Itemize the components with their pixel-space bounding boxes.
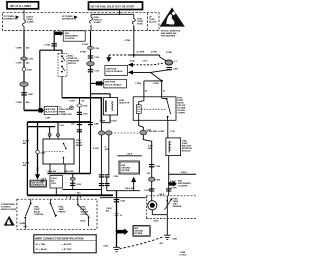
svg-text:SENDER: SENDER	[173, 206, 182, 208]
svg-text:PROCEDURES: PROCEDURES	[161, 36, 176, 38]
svg-text:1 ORN: 1 ORN	[44, 44, 51, 46]
svg-text:2 PNK: 2 PNK	[166, 52, 172, 54]
svg-text:BLOCK: BLOCK	[149, 22, 157, 24]
svg-text:WIRE CONNECTOR IDENTIFICATION: WIRE CONNECTOR IDENTIFICATION	[35, 237, 84, 241]
svg-text:GRN: GRN	[148, 148, 153, 150]
svg-text:71864: 71864	[180, 251, 186, 254]
svg-text:CLUSTER: CLUSTER	[178, 185, 188, 187]
svg-text:MODULE (PCM): MODULE (PCM)	[1, 209, 16, 211]
svg-text:GRY: GRY	[105, 149, 110, 151]
svg-text:2 PNK: 2 PNK	[100, 121, 106, 123]
svg-text:INJECTOR: INJECTOR	[119, 102, 130, 104]
svg-text:2 PNK: 2 PNK	[135, 83, 141, 85]
svg-text:2 PNK: 2 PNK	[153, 83, 159, 85]
svg-text:SEE FUSE: SEE FUSE	[106, 68, 117, 70]
svg-text:10 AMP: 10 AMP	[27, 21, 35, 24]
svg-text:1 BLK: 1 BLK	[153, 220, 159, 222]
svg-text:C1 = BLUE: C1 = BLUE	[36, 249, 48, 251]
svg-text:COMM: COMM	[19, 223, 26, 225]
svg-text:NOTICE: SENSITIVE: NOTICE: SENSITIVE	[161, 30, 181, 32]
svg-text:HOT AT ALL TIMES: HOT AT ALL TIMES	[10, 5, 32, 8]
svg-text:1 ORN: 1 ORN	[16, 102, 23, 104]
svg-text:A TAN: A TAN	[171, 187, 177, 190]
svg-text:1 ORN: 1 ORN	[16, 48, 23, 50]
svg-text:HOT IN RUN, BULB TEST OR START: HOT IN RUN, BULB TEST OR START	[91, 5, 135, 8]
svg-text:1 BLK: 1 BLK	[111, 121, 117, 123]
svg-text:1 BLK: 1 BLK	[127, 154, 133, 156]
svg-text:A TAN: A TAN	[158, 130, 164, 133]
svg-text:1 ORN: 1 ORN	[16, 63, 23, 65]
svg-text:2 PNK: 2 PNK	[124, 40, 130, 42]
svg-text:2 PNK: 2 PNK	[151, 52, 157, 54]
svg-text:CONTROL: CONTROL	[34, 214, 45, 216]
svg-text:= 87 PKP: = 87 PKP	[62, 249, 72, 251]
svg-text:AND HANDLING: AND HANDLING	[161, 32, 177, 35]
svg-text:2 PNK: 2 PNK	[82, 44, 88, 46]
svg-text:F1 86.4: F1 86.4	[180, 253, 188, 256]
svg-text:1 GRY: 1 GRY	[45, 118, 52, 120]
svg-text:1 BLK 450: 1 BLK 450	[125, 187, 136, 190]
svg-text:SWITCH: SWITCH	[68, 63, 76, 65]
svg-text:MODULE: MODULE	[182, 151, 191, 153]
svg-text:10 AMP: 10 AMP	[94, 21, 102, 24]
svg-text:A 2 PNK: A 2 PNK	[137, 51, 145, 54]
svg-text:BLOCK DET: BLOCK DET	[45, 111, 57, 113]
svg-text:BLOCK DETAILS: BLOCK DETAILS	[105, 83, 122, 86]
svg-text:4 PNK: 4 PNK	[80, 50, 86, 53]
svg-text:MOD: MOD	[81, 221, 86, 223]
svg-text:PRESS: PRESS	[59, 212, 66, 214]
svg-text:CLUSTER: CLUSTER	[65, 38, 75, 40]
svg-text:RELAY: RELAY	[76, 144, 83, 147]
svg-text:DISTRIBUTION: DISTRIBUTION	[32, 185, 45, 187]
svg-text:COMPT): COMPT)	[177, 113, 185, 115]
svg-text:DISTRIB: DISTRIB	[134, 233, 143, 235]
svg-text:G403: G403	[172, 237, 178, 240]
svg-text:SEE FUSE: SEE FUSE	[105, 82, 116, 84]
svg-text:C 410: C 410	[59, 124, 64, 127]
svg-text:.8 GRY: .8 GRY	[93, 148, 100, 150]
svg-text:CONNECTOR: CONNECTOR	[59, 114, 72, 116]
svg-text:1 GRY: 1 GRY	[144, 190, 151, 192]
svg-text:1 BLK 450: 1 BLK 450	[64, 170, 75, 173]
svg-text:1 GRY: 1 GRY	[69, 101, 76, 103]
svg-text:BLOCK DETAILS: BLOCK DETAILS	[106, 70, 123, 73]
svg-text:5 BLK: 5 BLK	[159, 194, 165, 196]
svg-text:4 BLK: 4 BLK	[181, 171, 187, 174]
svg-text:= 86 PKP: = 86 PKP	[62, 244, 72, 246]
svg-text:FUSE: FUSE	[137, 24, 143, 26]
svg-text:DISTRIBUTION: DISTRIBUTION	[62, 18, 77, 20]
svg-text:DISTRIBUTION: DISTRIBUTION	[4, 18, 19, 20]
svg-text:1.5 B: 1.5 B	[170, 131, 175, 133]
svg-text:U1 = TAN: U1 = TAN	[36, 243, 46, 246]
svg-text:CNTRL: CNTRL	[81, 214, 89, 216]
svg-text:DISTRIB: DISTRIB	[121, 170, 130, 172]
